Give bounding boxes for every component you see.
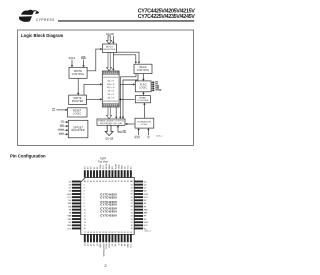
svg-text:VCC: VCC xyxy=(67,197,72,199)
svg-text:58: 58 xyxy=(131,200,133,202)
svg-text:POINTER: POINTER xyxy=(138,100,149,102)
svg-text:D7: D7 xyxy=(69,188,71,190)
svg-text:XI: XI xyxy=(147,137,149,139)
wire RAM to output register clock xyxy=(115,107,117,119)
svg-text:OE: OE xyxy=(112,243,114,246)
svg-text:34: 34 xyxy=(127,181,129,183)
node OE label xyxy=(123,130,127,134)
node FL/RT input to offset register xyxy=(58,129,69,132)
header rule xyxy=(58,20,194,21)
svg-text:RCLK: RCLK xyxy=(106,243,108,249)
svg-text:REN: REN xyxy=(109,243,111,248)
svg-text:CONTROL: CONTROL xyxy=(72,74,85,76)
svg-text:LOGIC: LOGIC xyxy=(139,87,147,89)
wire WEN xyxy=(82,60,84,68)
svg-text:Q4: Q4 xyxy=(85,244,87,247)
reset logic U4 xyxy=(68,108,88,117)
svg-text:Pin Configuration: Pin Configuration xyxy=(10,154,46,159)
svg-text:VCC: VCC xyxy=(67,228,72,230)
svg-text:PAF: PAF xyxy=(68,218,72,221)
svg-text:D2: D2 xyxy=(91,166,93,169)
wire read control to output register inner xyxy=(122,74,138,119)
wire OE into output register xyxy=(117,125,123,132)
svg-text:Q7: Q7 xyxy=(144,188,147,190)
svg-text:55: 55 xyxy=(131,209,133,211)
svg-text:CY7C4225V/4235V/4245V: CY7C4225V/4235V/4245V xyxy=(138,14,196,20)
svg-text:REGISTER (Q0–Q8): REGISTER (Q0–Q8) xyxy=(100,123,122,125)
package body outline xyxy=(81,178,134,235)
svg-text:32: 32 xyxy=(130,232,132,234)
svg-text:50: 50 xyxy=(131,225,133,227)
svg-text:SEN: SEN xyxy=(60,126,65,128)
svg-text:Q0–Q8: Q0–Q8 xyxy=(105,137,113,140)
svg-text:26: 26 xyxy=(111,232,113,234)
svg-text:VCC: VCC xyxy=(128,164,130,169)
svg-text:47: 47 xyxy=(87,181,89,183)
svg-text:Logic Block Diagram: Logic Block Diagram xyxy=(21,33,63,38)
svg-text:Q6: Q6 xyxy=(144,184,147,186)
node LD input to offset register xyxy=(61,121,69,124)
svg-text:D0–D8: D0–D8 xyxy=(106,33,114,36)
svg-text:23: 23 xyxy=(102,232,104,234)
svg-text:GND: GND xyxy=(127,243,129,248)
svg-text:VCC: VCC xyxy=(144,225,149,227)
svg-text:D4: D4 xyxy=(85,166,87,169)
svg-text:PAE: PAE xyxy=(144,208,148,211)
wire write pointer to RAM upper xyxy=(84,83,102,95)
svg-text:PAE: PAE xyxy=(68,215,72,218)
svg-text:9: 9 xyxy=(84,206,85,208)
svg-text:EF: EF xyxy=(144,203,147,205)
svg-text:36: 36 xyxy=(121,181,123,183)
svg-text:35: 35 xyxy=(124,181,126,183)
svg-text:7: 7 xyxy=(84,200,85,202)
svg-text:WXI: WXI xyxy=(68,203,72,205)
node SCLK input to offset register xyxy=(59,133,69,136)
svg-text:CY7C4245V: CY7C4245V xyxy=(100,210,117,214)
svg-text:43: 43 xyxy=(99,181,101,183)
svg-text:52: 52 xyxy=(131,219,133,221)
svg-text:OFFSET: OFFSET xyxy=(73,127,84,129)
svg-text:4205–2: 4205–2 xyxy=(145,230,151,232)
svg-text:5: 5 xyxy=(84,194,85,196)
svg-text:Q8: Q8 xyxy=(144,191,147,193)
svg-text:10: 10 xyxy=(84,209,86,211)
svg-text:4K × 9: 4K × 9 xyxy=(108,96,115,99)
svg-text:38: 38 xyxy=(115,181,117,183)
svg-text:GND: GND xyxy=(144,194,149,196)
svg-text:28: 28 xyxy=(118,232,120,234)
svg-text:NC: NC xyxy=(68,200,71,202)
svg-text:256 × 9: 256 × 9 xyxy=(107,83,115,86)
svg-text:53: 53 xyxy=(131,216,133,218)
bus arrow D0-D8 into input register xyxy=(107,36,112,44)
svg-text:44: 44 xyxy=(96,181,98,183)
svg-text:14: 14 xyxy=(84,222,86,224)
svg-text:VCC: VCC xyxy=(103,164,105,169)
wire read control to output register outer xyxy=(119,74,136,119)
svg-text:64 × 9: 64 × 9 xyxy=(108,79,115,82)
svg-text:D1: D1 xyxy=(94,166,96,169)
svg-text:2K × 9: 2K × 9 xyxy=(108,93,115,96)
svg-text:40: 40 xyxy=(108,181,110,183)
svg-text:FF: FF xyxy=(69,213,72,215)
svg-text:19: 19 xyxy=(90,232,92,234)
svg-text:EF: EF xyxy=(69,209,72,211)
package pins (16 per side) xyxy=(72,170,143,242)
svg-text:RESET: RESET xyxy=(73,111,82,113)
svg-text:15: 15 xyxy=(84,225,86,227)
svg-text:51: 51 xyxy=(131,222,133,224)
svg-text:INPUT: INPUT xyxy=(106,46,114,48)
svg-text:VCC: VCC xyxy=(131,243,133,248)
svg-text:512 × 9: 512 × 9 xyxy=(107,86,115,89)
input register U1 xyxy=(103,44,117,53)
svg-text:HF: HF xyxy=(144,216,147,218)
svg-text:HF: HF xyxy=(121,243,123,246)
svg-text:CONTROL: CONTROL xyxy=(137,70,150,72)
pin numbers inside package xyxy=(84,181,133,234)
wire RCLK branch to read control B xyxy=(113,55,137,64)
wire expansion logic to output register xyxy=(125,123,134,125)
wire WCLK into input register xyxy=(112,36,114,44)
node RS label xyxy=(52,108,56,112)
svg-text:EXPANSION: EXPANSION xyxy=(138,120,152,123)
svg-text:CY7C4255V: CY7C4255V xyxy=(100,214,117,218)
bus arrow input register to RAM xyxy=(107,53,112,71)
svg-text:NC: NC xyxy=(144,219,147,221)
svg-text:GND: GND xyxy=(118,164,120,169)
svg-text:62: 62 xyxy=(131,187,133,189)
svg-text:WEN2/LD/SEN: WEN2/LD/SEN xyxy=(103,243,105,256)
package title xyxy=(98,158,108,164)
svg-text:REGISTER: REGISTER xyxy=(103,49,115,51)
svg-text:REGISTER: REGISTER xyxy=(72,130,85,132)
svg-text:3: 3 xyxy=(84,187,85,189)
svg-text:57: 57 xyxy=(131,203,133,205)
wire FL into expansion logic xyxy=(137,128,139,135)
wire branch to flag logic xyxy=(120,83,135,85)
svg-text:RS: RS xyxy=(69,206,72,208)
svg-text:Q5: Q5 xyxy=(144,181,147,183)
svg-text:CYPRESS: CYPRESS xyxy=(36,18,55,22)
svg-text:FL/RT: FL/RT xyxy=(134,137,140,139)
RAM array U6 (dual-port RAM with register combs) xyxy=(102,71,119,107)
svg-text:NC: NC xyxy=(131,166,133,169)
read pointer U9 xyxy=(135,96,150,103)
svg-text:READ: READ xyxy=(140,97,147,100)
svg-text:RS: RS xyxy=(112,166,114,169)
svg-text:30: 30 xyxy=(124,232,126,234)
svg-text:NC: NC xyxy=(115,243,117,246)
svg-text:LD: LD xyxy=(124,166,126,169)
svg-text:6: 6 xyxy=(84,197,85,199)
svg-text:CY7C4205V: CY7C4205V xyxy=(100,196,117,200)
pin labels around package xyxy=(67,163,149,249)
svg-text:D6: D6 xyxy=(69,184,71,186)
svg-text:EF: EF xyxy=(124,243,126,246)
svg-text:D3: D3 xyxy=(88,166,90,169)
svg-text:39: 39 xyxy=(111,181,113,183)
svg-text:56: 56 xyxy=(131,206,133,208)
svg-text:21: 21 xyxy=(96,232,98,234)
svg-text:GND: GND xyxy=(67,194,72,196)
svg-text:45: 45 xyxy=(93,181,95,183)
svg-text:D5: D5 xyxy=(69,181,71,183)
wire RS into reset logic xyxy=(57,109,68,111)
Cypress logo xyxy=(19,10,55,22)
svg-text:42: 42 xyxy=(102,181,104,183)
svg-text:WRITE: WRITE xyxy=(73,98,82,100)
svg-text:Q0: Q0 xyxy=(97,244,99,247)
wire expansion logic to read pointer xyxy=(143,103,145,118)
wire input register to RAM clock xyxy=(112,53,114,71)
wire write control to write pointer xyxy=(77,78,79,95)
svg-text:11: 11 xyxy=(84,213,86,215)
svg-text:20: 20 xyxy=(93,232,95,234)
svg-text:24: 24 xyxy=(105,232,107,234)
svg-text:FL/RT: FL/RT xyxy=(115,163,117,169)
svg-text:46: 46 xyxy=(90,181,92,183)
output register U11 xyxy=(97,119,125,125)
wire read pointer to RAM xyxy=(119,98,134,100)
svg-text:XI: XI xyxy=(118,243,120,245)
diagram frame xyxy=(18,30,194,146)
svg-text:54: 54 xyxy=(131,213,133,215)
bus arrow RAM to output register xyxy=(107,107,112,119)
svg-text:READ: READ xyxy=(139,66,146,69)
read control U7 xyxy=(134,64,152,73)
svg-text:LD: LD xyxy=(61,122,64,124)
expansion logic U10 xyxy=(135,118,154,128)
svg-text:2: 2 xyxy=(84,184,85,186)
svg-text:59: 59 xyxy=(131,197,133,199)
svg-text:27: 27 xyxy=(115,232,117,234)
svg-text:4205–1: 4205–1 xyxy=(156,135,162,137)
svg-text:4: 4 xyxy=(84,191,85,193)
svg-text:NC: NC xyxy=(144,200,147,202)
wire read control to flag logic xyxy=(142,74,144,81)
flag logic U8 xyxy=(135,81,151,92)
svg-text:Q3: Q3 xyxy=(88,244,90,247)
node WEN label xyxy=(81,56,87,60)
svg-text:FF: FF xyxy=(144,206,147,208)
svg-text:Q1: Q1 xyxy=(94,244,96,247)
wire write pointer to RAM lower xyxy=(87,98,103,100)
svg-text:CY7C4225V: CY7C4225V xyxy=(100,203,117,207)
wire write control to input register xyxy=(87,48,102,71)
svg-text:8: 8 xyxy=(84,203,85,205)
svg-text:OE: OE xyxy=(123,132,127,134)
wire WCLK xyxy=(71,60,73,68)
offset register U5 xyxy=(68,120,88,138)
svg-text:37: 37 xyxy=(118,181,120,183)
svg-text:VCC: VCC xyxy=(144,197,149,199)
svg-text:XO/HF: XO/HF xyxy=(155,90,162,92)
svg-text:17: 17 xyxy=(84,232,86,234)
svg-text:GND: GND xyxy=(100,243,102,248)
svg-text:POINTER: POINTER xyxy=(72,101,84,103)
svg-text:NC: NC xyxy=(68,222,71,224)
svg-text:WCLK: WCLK xyxy=(106,163,108,169)
svg-text:61: 61 xyxy=(131,191,133,193)
svg-text:GND: GND xyxy=(144,222,149,224)
svg-text:31: 31 xyxy=(127,232,129,234)
svg-text:GND: GND xyxy=(100,164,102,169)
svg-text:Q2: Q2 xyxy=(91,244,93,247)
flag outputs EF FF PAE PAF HF xyxy=(151,81,162,92)
svg-text:1K × 9: 1K × 9 xyxy=(108,90,115,93)
svg-text:GND: GND xyxy=(67,225,72,227)
svg-text:63: 63 xyxy=(131,184,133,186)
svg-text:12: 12 xyxy=(84,216,86,218)
svg-text:D0: D0 xyxy=(97,166,99,169)
node XI label xyxy=(147,136,150,139)
write control U2 xyxy=(69,67,87,78)
svg-text:FLAG: FLAG xyxy=(140,84,147,87)
svg-text:25: 25 xyxy=(108,232,110,234)
svg-text:16: 16 xyxy=(84,228,86,230)
svg-text:60: 60 xyxy=(131,194,133,196)
node SEN input to offset register xyxy=(60,125,69,128)
svg-text:PAF: PAF xyxy=(144,212,148,215)
svg-text:22: 22 xyxy=(99,232,101,234)
wire XI into expansion logic xyxy=(147,128,149,135)
node FL label xyxy=(134,136,140,139)
svg-text:49: 49 xyxy=(131,228,133,230)
svg-text:18: 18 xyxy=(87,232,89,234)
svg-text:RS: RS xyxy=(52,110,56,112)
svg-text:SEN: SEN xyxy=(121,164,123,169)
svg-text:LOGIC: LOGIC xyxy=(141,124,149,126)
svg-text:WEN: WEN xyxy=(109,164,111,169)
svg-text:FL/RT: FL/RT xyxy=(58,130,64,132)
wire read pointer to flag logic xyxy=(142,92,144,96)
svg-text:2: 2 xyxy=(104,263,107,268)
svg-text:D8: D8 xyxy=(69,191,71,193)
svg-text:LOGIC: LOGIC xyxy=(73,114,81,116)
svg-text:WRITE: WRITE xyxy=(74,71,83,73)
svg-text:64: 64 xyxy=(131,181,133,183)
svg-text:29: 29 xyxy=(121,232,123,234)
write pointer U3 xyxy=(69,95,87,104)
wire input register to read control A xyxy=(117,52,141,64)
svg-text:41: 41 xyxy=(105,181,107,183)
bus arrow Q0-Q8 output xyxy=(105,125,113,135)
svg-text:Top View: Top View xyxy=(98,161,108,164)
part numbers in package center xyxy=(100,193,117,218)
svg-text:13: 13 xyxy=(84,219,86,221)
svg-text:1: 1 xyxy=(84,181,85,183)
svg-text:SCLK: SCLK xyxy=(59,134,65,136)
